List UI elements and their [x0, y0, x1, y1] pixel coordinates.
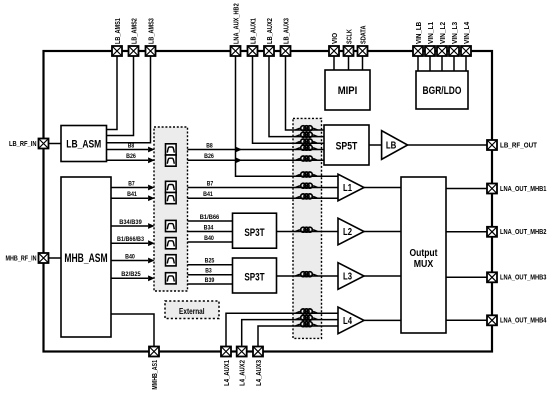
- svg-text:MUX: MUX: [414, 259, 434, 270]
- wire Output MUX to LNA_OUT_MHB3: [446, 276, 487, 278]
- block LB_ASM: [61, 126, 107, 162]
- svg-text:B41: B41: [203, 191, 213, 198]
- port LNA_AUX_HB2: [231, 46, 241, 56]
- wire B1/B66/B3 MHB_ASM to filters: [111, 240, 155, 246]
- wire B1/B66 filters to SP3T1: [188, 220, 233, 222]
- filter B40: [166, 255, 177, 266]
- port VIO: [329, 46, 339, 56]
- wire Output MUX to LNA_OUT_MHB2: [446, 231, 487, 233]
- svg-text:External: External: [179, 306, 205, 316]
- port SCLK: [344, 46, 354, 56]
- wire SDATA to MIPI: [362, 56, 364, 70]
- block MHB_ASM: [61, 177, 111, 337]
- External legend box: [165, 301, 219, 319]
- port SDATA: [358, 46, 368, 56]
- port LB_AUX1: [248, 46, 258, 56]
- svg-text:SP3T: SP3T: [244, 272, 265, 284]
- wire SP5T to LB amp: [369, 144, 382, 146]
- inductor L1 in1: [296, 172, 318, 177]
- wire B41 MHB_ASM to filters: [111, 195, 155, 201]
- svg-text:B34: B34: [204, 224, 214, 231]
- wire LB amp to LB_RF_OUT: [408, 144, 487, 146]
- port VIN_L3: [449, 46, 459, 56]
- wire B3 filters to SP3T2: [188, 274, 233, 276]
- filter B1/B66/B3: [166, 238, 177, 249]
- svg-text:LNA_AUX_HB2: LNA_AUX_HB2: [231, 3, 240, 44]
- wire B41 filters to L1: [188, 197, 339, 199]
- port LB_AUX3: [281, 46, 291, 56]
- svg-text:L4_AUX2: L4_AUX2: [238, 360, 247, 386]
- svg-text:VIN_L3: VIN_L3: [450, 22, 459, 44]
- svg-text:B1/B66/B3: B1/B66/B3: [117, 236, 145, 243]
- filter B8: [166, 144, 177, 155]
- block SP5T: [324, 125, 369, 165]
- svg-text:LB_AMS3: LB_AMS3: [146, 18, 155, 44]
- amplifier L4: [338, 307, 364, 334]
- svg-text:L1: L1: [343, 183, 352, 194]
- svg-text:B26: B26: [126, 153, 136, 160]
- wire B7 MHB_ASM to filters: [111, 185, 155, 191]
- amplifier L2: [338, 218, 364, 245]
- svg-text:LB: LB: [386, 141, 397, 152]
- svg-text:LB_RF_OUT: LB_RF_OUT: [500, 140, 537, 149]
- svg-text:L4_AUX1: L4_AUX1: [222, 359, 231, 386]
- external filter bank (dashed box): [154, 127, 188, 291]
- wire VIN_L3 to BGR/LDO: [453, 56, 455, 71]
- wire LB_AUX3 to SP5T: [286, 56, 325, 130]
- svg-text:LB_AMS2: LB_AMS2: [129, 18, 138, 44]
- amplifier LB: [382, 131, 408, 160]
- wire LB_RF_IN to LB_ASM: [48, 143, 61, 145]
- svg-text:B41: B41: [127, 191, 137, 198]
- svg-text:LNA_OUT_MHB1: LNA_OUT_MHB1: [500, 184, 547, 193]
- svg-text:MHB_RF_IN: MHB_RF_IN: [6, 254, 37, 263]
- block BGR/LDO: [416, 71, 468, 109]
- svg-text:LB_AUX1: LB_AUX1: [248, 18, 257, 44]
- port L4_AUX3: [253, 347, 263, 357]
- wire B2/B25 MHB_ASM to filters: [111, 275, 155, 281]
- chip boundary: [44, 51, 493, 352]
- block SP3T U2: [233, 213, 277, 248]
- amplifier L3: [338, 263, 364, 290]
- amplifier L1: [338, 174, 364, 201]
- inductor B26: [296, 156, 318, 161]
- port L4_AUX2: [237, 347, 247, 357]
- port VIN_L1: [425, 46, 435, 56]
- wire B26 filters to SP5T: [188, 159, 325, 161]
- wire L4_AUX2 to L4: [242, 320, 338, 346]
- wire B7 filters to L1: [188, 187, 339, 189]
- wire MHB_RF_IN to MHB_ASM: [48, 257, 61, 259]
- wire B40 MHB_ASM to filters: [111, 258, 155, 264]
- port LB_AMS2: [129, 46, 139, 56]
- wire LB_AUX2 to SP5T: [269, 56, 324, 137]
- wire LB_ASM to LB_AMS1: [107, 56, 118, 129]
- wire SP3T2 to L3: [277, 275, 339, 277]
- wire L4_AUX3 to L4: [258, 326, 338, 346]
- external matching inductor bank (dashed box): [293, 118, 322, 338]
- wire SP3T1 to L2: [277, 231, 339, 233]
- inductor B7: [296, 183, 318, 188]
- port LB_AMS1: [112, 46, 122, 56]
- svg-text:B7: B7: [207, 180, 214, 187]
- inductor L2 in: [296, 227, 318, 232]
- junction arrow on B8 at LNA_AUX_HB2: [236, 147, 243, 153]
- port MMHB_AS1: [149, 347, 159, 357]
- wire L4_AUX1 to L4: [226, 313, 338, 346]
- svg-text:LB_ASM: LB_ASM: [66, 138, 101, 150]
- svg-text:B40: B40: [204, 235, 214, 242]
- wire L2 to Output MUX: [364, 231, 401, 233]
- svg-text:LNA_OUT_MHB4: LNA_OUT_MHB4: [500, 316, 547, 325]
- port LNA_OUT_MHB3: [487, 272, 497, 282]
- inductor L4 in3: [296, 322, 318, 327]
- filter B7: [166, 181, 177, 192]
- port VIN_LB: [413, 46, 423, 56]
- port LB_AMS3: [146, 46, 156, 56]
- port MHB_RF_IN: [39, 253, 49, 263]
- svg-text:VIO: VIO: [330, 33, 339, 44]
- svg-text:SP5T: SP5T: [336, 141, 358, 153]
- svg-text:L4_AUX3: L4_AUX3: [254, 360, 263, 386]
- svg-text:MMHB_AS1: MMHB_AS1: [150, 359, 159, 389]
- svg-text:Output: Output: [410, 248, 438, 259]
- svg-text:VIN_L2: VIN_L2: [438, 22, 447, 44]
- svg-text:LB_AUX2: LB_AUX2: [265, 18, 274, 44]
- svg-text:L3: L3: [343, 272, 352, 283]
- wire B26 LB_ASM to filters: [107, 157, 155, 163]
- wire B8 LB_ASM to filters: [107, 147, 155, 153]
- wire VIN_L4 to BGR/LDO: [465, 56, 467, 71]
- svg-text:SP3T: SP3T: [244, 227, 265, 239]
- port LB_RF_IN: [39, 139, 49, 149]
- svg-text:B8: B8: [206, 142, 213, 149]
- wire SCLK to MIPI: [348, 56, 350, 70]
- svg-text:SCLK: SCLK: [344, 29, 353, 44]
- wire LB_ASM to LB_AMS3: [107, 56, 151, 143]
- svg-text:B7: B7: [128, 180, 135, 187]
- svg-text:B3: B3: [205, 268, 212, 275]
- wire B39 filters to SP3T2: [188, 283, 233, 285]
- port VIN_L2: [437, 46, 447, 56]
- svg-text:LNA_OUT_MHB3: LNA_OUT_MHB3: [500, 273, 547, 282]
- filter B2/B25: [166, 273, 177, 284]
- wire LB_AUX1 to SP5T: [253, 56, 325, 143]
- wire L3 to Output MUX: [364, 275, 401, 277]
- inductor B8: [296, 145, 318, 150]
- svg-text:BGR/LDO: BGR/LDO: [423, 85, 462, 97]
- wire Output MUX to LNA_OUT_MHB4: [446, 319, 487, 321]
- inductor L4 in1: [296, 309, 318, 314]
- svg-text:B2/B25: B2/B25: [121, 271, 141, 278]
- svg-text:MHB_ASM: MHB_ASM: [64, 253, 107, 265]
- svg-text:B39: B39: [205, 277, 215, 284]
- svg-text:LNA_OUT_MHB2: LNA_OUT_MHB2: [500, 227, 547, 236]
- port LNA_OUT_MHB1: [487, 184, 497, 194]
- port LB_RF_OUT: [487, 140, 497, 150]
- wire LNA_AUX_HB2 to L1: [236, 56, 339, 176]
- block MIPI: [325, 70, 370, 110]
- filter B26: [166, 155, 177, 166]
- port VIN_L4: [461, 46, 471, 56]
- wire VIN_L2 to BGR/LDO: [441, 56, 443, 71]
- block SP3T U3: [233, 258, 277, 293]
- svg-text:MIPI: MIPI: [338, 85, 358, 97]
- port LNA_OUT_MHB4: [487, 315, 497, 325]
- svg-text:B40: B40: [125, 253, 135, 260]
- wire MHB_ASM to MMHB_AS1: [111, 314, 154, 346]
- wire B8 filters to SP5T: [188, 149, 325, 151]
- svg-text:VIN_LB: VIN_LB: [414, 21, 423, 44]
- svg-text:B26: B26: [204, 153, 214, 160]
- wire L1 to Output MUX: [364, 187, 401, 189]
- svg-text:SDATA: SDATA: [358, 25, 367, 44]
- wire VIN_L1 to BGR/LDO: [429, 56, 431, 71]
- wire VIO to MIPI: [333, 56, 335, 70]
- svg-text:VIN_L1: VIN_L1: [426, 21, 435, 44]
- port LNA_OUT_MHB2: [487, 227, 497, 237]
- svg-text:L2: L2: [343, 227, 352, 238]
- inductor B41: [296, 194, 318, 199]
- wire B34/B39 MHB_ASM to filters: [111, 223, 155, 229]
- wire B25 filters to SP3T2: [188, 264, 233, 266]
- svg-text:VIN_L4: VIN_L4: [462, 21, 471, 44]
- wire LB_ASM to LB_AMS2: [107, 56, 134, 135]
- filter B34/B39: [166, 220, 177, 231]
- svg-text:B1/B66: B1/B66: [200, 214, 220, 221]
- wire Output MUX to LNA_OUT_MHB1: [446, 188, 487, 190]
- wire B40 filters to SP3T1: [188, 241, 233, 243]
- inductor SP5T in1: [296, 126, 318, 131]
- wire VIN_LB to BGR/LDO: [417, 56, 419, 71]
- junction arrow on B26 at LNA_AUX_HB2: [236, 157, 243, 163]
- svg-text:B25: B25: [205, 258, 215, 265]
- port L4_AUX1: [221, 347, 231, 357]
- svg-text:LB_AUX3: LB_AUX3: [281, 18, 290, 44]
- port LB_AUX2: [264, 46, 274, 56]
- wire B34 filters to SP3T1: [188, 231, 233, 233]
- svg-text:B34/B39: B34/B39: [119, 219, 142, 226]
- inductor SP5T in3: [296, 139, 318, 144]
- svg-text:L4: L4: [343, 316, 352, 327]
- svg-text:B8: B8: [128, 142, 135, 149]
- svg-text:LB_RF_IN: LB_RF_IN: [9, 139, 37, 148]
- inductor SP5T in2: [296, 132, 318, 137]
- svg-text:LB_AMS1: LB_AMS1: [113, 18, 122, 44]
- wire L4 to Output MUX: [364, 319, 401, 321]
- filter B41: [166, 193, 177, 204]
- inductor L4 in2: [296, 315, 318, 320]
- block Output MUX: [401, 177, 446, 333]
- inductor L3 in: [296, 272, 318, 277]
